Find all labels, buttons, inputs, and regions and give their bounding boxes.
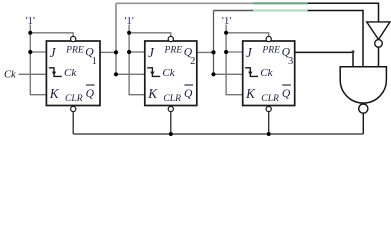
junction Q2 — [211, 50, 215, 54]
svg-text:Ck: Ck — [162, 67, 175, 79]
wire CLR bus — [73, 133, 363, 135]
wire Q2 stub — [197, 51, 214, 53]
NAND gate U5 — [340, 67, 386, 114]
svg-text:Q: Q — [282, 87, 291, 100]
svg-text:Q: Q — [86, 87, 95, 100]
wire A green segment — [253, 2, 308, 4]
wire inverter output to NAND input — [378, 47, 380, 66]
svg-text:K: K — [49, 86, 60, 101]
wire Ck2 — [116, 73, 145, 75]
junction rail1-J — [28, 50, 32, 54]
svg-text:2: 2 — [190, 56, 195, 67]
wire Q1 stub — [100, 51, 116, 53]
junction rail1-PRE — [28, 31, 32, 35]
svg-text:PRE: PRE — [65, 44, 84, 55]
svg-text:PRE: PRE — [164, 44, 183, 55]
junction bus CLR3 — [267, 132, 271, 136]
PRE bubble U3 — [266, 36, 271, 41]
wire A Q1 to inverter: gray segment — [116, 2, 253, 4]
PRE bubble U1 — [71, 36, 76, 41]
inverter U4 — [367, 22, 390, 67]
wire CLR1 drop — [72, 112, 74, 134]
junction rail2-J — [127, 50, 131, 54]
flip-flop U1 (JK) box — [46, 36, 100, 111]
junction rail3-J — [224, 50, 228, 54]
junction rail3-PRE — [224, 31, 228, 35]
CLR bubble U3 — [266, 106, 271, 111]
wire '1' rail 3 (vertical to K3) — [226, 25, 243, 95]
wire Q1 vertical (node Q1 up to top, down to Ck2) — [115, 3, 117, 74]
svg-text:1: 1 — [92, 56, 97, 67]
flip-flop U2 (JK) box — [145, 36, 197, 111]
clock edge symbol — [147, 68, 160, 77]
wire A black segment into inverter — [308, 3, 379, 22]
wire J3 branch — [226, 51, 243, 53]
junction Q1 — [114, 50, 118, 54]
CLR bubble U2 — [168, 106, 173, 111]
wire '1' rail 1 (vertical to K1) — [30, 25, 46, 95]
svg-text:CLR: CLR — [163, 93, 181, 104]
wire Q2 vertical (node Q2 up to top wire B, down to Ck3) — [213, 11, 215, 75]
wire PRE1 branch — [30, 33, 73, 37]
junction rail2-PRE — [127, 31, 131, 35]
junction bus CLR2 — [169, 132, 173, 136]
wire J1 branch — [30, 51, 46, 53]
svg-text:Ck: Ck — [4, 70, 16, 81]
clock edge symbol — [49, 68, 62, 77]
svg-text:Ck: Ck — [64, 67, 77, 79]
svg-text:K: K — [245, 86, 256, 101]
junction Ck2 corner — [114, 72, 118, 76]
wire J2 branch — [129, 51, 145, 53]
svg-text:CLR: CLR — [261, 93, 279, 104]
svg-text:3: 3 — [288, 56, 293, 67]
wire CLR3 drop — [268, 112, 270, 134]
flip-flop U3 (JK) box — [243, 36, 295, 111]
PRE bubble U2 — [168, 36, 173, 41]
svg-text:Q: Q — [184, 87, 193, 100]
junction Q3 corner — [352, 50, 355, 53]
wire Ck3 — [214, 73, 243, 75]
svg-text:CLR: CLR — [65, 93, 83, 104]
wire B Q2 to NAND: gray segment — [214, 10, 254, 12]
svg-text:PRE: PRE — [261, 44, 280, 55]
wire Q3 to NAND input — [295, 52, 353, 66]
wire CLR2 drop — [170, 112, 172, 134]
wire B pale green segment — [253, 9, 308, 11]
CLR bubble U1 — [71, 106, 76, 111]
junction Ck3 corner — [211, 72, 215, 76]
wire Ck input to FF1 — [19, 73, 47, 75]
svg-text:Ck: Ck — [260, 67, 273, 79]
wire PRE3 branch — [226, 33, 269, 37]
clock edge symbol — [245, 68, 258, 77]
svg-text:K: K — [147, 86, 158, 101]
wire B black segment down to NAND input — [308, 11, 363, 67]
wire PRE2 branch — [129, 33, 171, 37]
wire NAND output down to CLR bus — [362, 113, 364, 134]
wire '1' rail 2 (vertical to K2) — [129, 25, 145, 95]
